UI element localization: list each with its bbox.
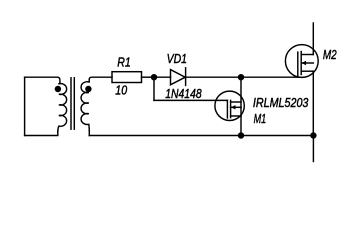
resistor R1 <box>112 72 142 83</box>
wire diode cathode to node B <box>186 76 241 78</box>
node B2 junction dot <box>238 132 244 138</box>
node C junction dot <box>310 132 316 138</box>
wire M2 drain up stub <box>312 23 314 55</box>
node A junction dot <box>151 74 157 80</box>
wire M1 drain-source through <box>240 77 242 135</box>
transistor M1 channel bar <box>230 100 232 117</box>
transformer primary winding <box>58 84 67 132</box>
svg-text:R1: R1 <box>117 54 131 69</box>
wire secondary top <box>89 77 112 82</box>
transistor M2 body arrow <box>301 61 306 65</box>
wire primary bottom <box>25 131 58 136</box>
bottom rail wire <box>89 135 313 137</box>
svg-text:VD1: VD1 <box>167 51 187 66</box>
svg-text:10: 10 <box>115 82 127 97</box>
transistor M1 body arrow <box>231 105 236 109</box>
transistor M2 source stub <box>301 70 313 72</box>
wire primary left vertical <box>24 77 26 135</box>
svg-text:IRLML5203: IRLML5203 <box>253 95 309 110</box>
wire M2 source down to rail <box>312 71 314 135</box>
transistor M2 drain stub <box>301 54 313 56</box>
diode VD1 cathode bar <box>185 68 187 86</box>
transistor M2 gate bar <box>297 52 299 77</box>
transistor M2 body stub <box>301 62 313 64</box>
wire primary top <box>25 77 60 84</box>
transistor M1 body stub <box>231 106 242 108</box>
transistor M1 drain stub <box>231 101 242 103</box>
wire node A to diode anode <box>154 76 171 78</box>
svg-text:M2: M2 <box>323 47 337 62</box>
wire node B to M2 gate <box>241 76 298 78</box>
wire gate branch horizontal to M1 gate <box>154 99 227 101</box>
phase dot secondary <box>85 86 91 92</box>
wire R1 to node A <box>142 76 155 78</box>
wire gate branch vertical <box>153 77 155 100</box>
transistor M1 gate bar <box>226 100 228 118</box>
transformer core line 1 <box>70 78 72 129</box>
phase dot primary <box>55 86 61 92</box>
transistor M1 body circle <box>215 91 244 120</box>
node B junction dot <box>238 74 244 80</box>
wire secondary bottom to rail <box>88 131 90 136</box>
svg-text:M1: M1 <box>254 111 267 126</box>
transformer secondary winding <box>81 82 89 131</box>
svg-text:1N4148: 1N4148 <box>165 86 202 101</box>
transformer core line 2 <box>73 78 75 129</box>
transistor M1 source stub <box>231 115 242 117</box>
diode VD1 <box>171 70 186 85</box>
transistor M2 channel bar <box>300 52 302 75</box>
transistor M2 body circle <box>285 45 318 78</box>
wire bottom stub <box>312 136 314 162</box>
